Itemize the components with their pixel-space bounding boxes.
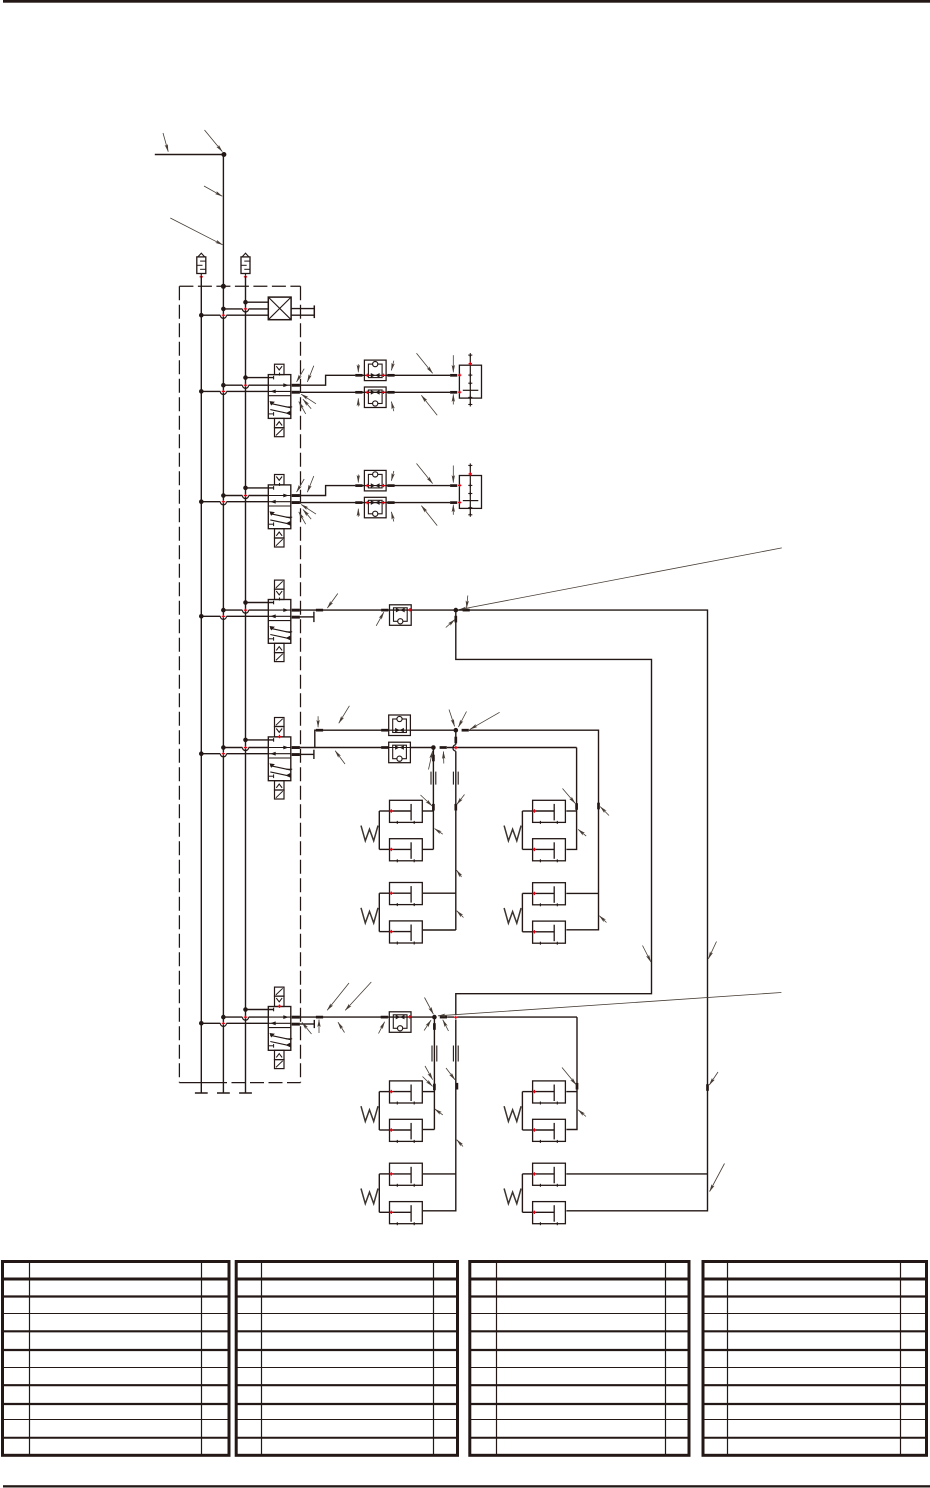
wire W-group rail [521,893,523,931]
callout leader [417,353,433,373]
relief valve (left) [197,253,206,278]
wire rail C [245,276,247,1093]
counterbalance valve W (upper) [390,1163,423,1187]
callout leader [599,916,606,923]
callout leader [391,361,393,371]
callout leader [446,620,455,628]
label W [361,1189,378,1204]
check valve 5 [389,1012,411,1033]
parts table panel 3 [470,1262,689,1456]
callout leader [335,751,345,764]
control valve section 2 [268,475,300,548]
wire [423,1129,434,1131]
wire P feed [246,602,274,604]
callout leader [170,218,222,245]
callout leader [345,982,371,1010]
callout leader [357,364,359,372]
node section5 junction [432,1015,437,1020]
control valve section 3 [268,580,300,662]
counterbalance valve W (upper) [533,883,566,907]
callout leader [429,751,433,770]
W group upper-left [361,800,422,862]
wire to filter from rail C [246,301,269,303]
wire to filter from rail A [201,314,268,316]
callout leader [205,130,223,152]
callout leader [425,998,434,1015]
callout leader [391,512,393,522]
node A4 junction [454,728,459,733]
callout leader [710,1164,725,1192]
callout leader [562,1068,576,1085]
callout leader [307,366,313,382]
callout leader [578,1110,586,1117]
wire P feed [246,739,274,741]
wire service feed [223,747,268,749]
wire service line 3 [300,609,456,611]
callout leader [457,911,464,918]
wire service line 5 [300,1016,435,1018]
tank port end bar [313,305,315,318]
wire pump rail (vertical) [222,155,224,1094]
callout leader [457,870,462,877]
W group lower-left [361,883,422,945]
wire service A4 with step [300,730,389,747]
counterbalance valve W (lower) [390,839,423,863]
wire [423,892,456,894]
wire to far rail (right) [456,610,708,1211]
wire A4 to right W pair [469,730,599,930]
tank symbol [239,1092,252,1094]
callout leader [563,789,576,804]
callout leader [204,186,222,196]
callout leader [452,394,454,404]
pilot check valve (upper) [364,360,386,381]
counterbalance valve W (lower) [533,839,566,863]
wire [566,1173,707,1175]
cylinder 2 [458,463,482,516]
wire T feed [201,390,268,392]
control valve section 5 [268,987,300,1069]
wire W-group rail [378,1174,380,1212]
W group bottom upper-right [504,1081,565,1143]
tank symbol [195,1092,208,1094]
callout leader [435,829,443,835]
control valve section 1 [268,364,300,437]
callout leader [443,1020,449,1031]
callout leader [391,471,393,481]
wire service feed [223,1016,268,1018]
parts table panel 2 [236,1262,457,1456]
parts table panel 4 [703,1262,927,1456]
callout leader [318,1020,320,1033]
wire W-group rail [378,893,380,931]
counterbalance valve W (lower) [533,1119,566,1143]
callout leader [435,1109,443,1115]
wire A4 branch down (hop over B4) [455,730,457,744]
wire [566,810,576,812]
callout leader [600,807,609,816]
callout leader [470,712,499,729]
wire [566,892,598,894]
counterbalance valve W (upper) [390,883,423,907]
callout leader [303,510,311,520]
W group lower-right [504,883,565,945]
callout leader [297,479,305,492]
wire service A with step [300,375,356,385]
node section3 junction [454,608,459,613]
callout leader [299,402,306,414]
callout leader [357,509,359,517]
callout leader [379,1022,385,1034]
wire B4 to right W pair [566,748,576,850]
wire T feed [201,753,268,755]
callout leader [391,402,393,412]
wire [423,1173,456,1175]
valve manifold enclosure (dashed) [179,285,300,287]
plugged port S4 [300,753,314,755]
callout leader [327,983,349,1010]
wire B4 [315,747,389,749]
wire rail A [200,276,202,1093]
wire to lower-right W pair [566,1017,577,1129]
callout leader [458,712,466,728]
wire W-group rail [521,811,523,849]
counterbalance valve W (upper) [533,1081,566,1105]
wire service feed [223,495,268,497]
counterbalance valve W (lower) [390,921,423,945]
counterbalance valve W (lower) [533,1202,566,1226]
wire [422,848,433,850]
wire P feed [246,377,274,379]
callout leader [421,795,433,806]
wire P feed [246,487,274,489]
callout leader [357,398,359,406]
label W [361,908,378,923]
wire to filter from pump rail [223,308,268,310]
callout leader [297,369,305,382]
counterbalance valve W (upper) [390,800,423,824]
wire [423,929,456,931]
wire W-group rail [521,1092,523,1130]
label W [504,1106,521,1121]
wire B4 branch down [432,748,434,850]
wire A4 [410,729,455,731]
callout leader [327,594,337,609]
counterbalance valve W (lower) [390,1202,423,1226]
plugged port [300,616,314,618]
callout leader [421,395,437,415]
callout leader [302,1022,312,1034]
check valve 4A [389,715,411,736]
wire P feed [246,1009,274,1011]
wire T feed [201,615,268,617]
check valve 4B [389,742,411,763]
counterbalance valve W (upper) [533,1163,566,1187]
callout leader [357,475,359,483]
label W [361,826,378,841]
callout leader [457,1140,463,1147]
callout leader [301,394,316,404]
tank symbol [217,1092,230,1094]
callout leader (long) [459,548,782,610]
callout leader [709,1072,718,1085]
label W [504,826,521,841]
callout leader [467,596,468,609]
relief valve (right) [241,253,250,278]
wire W-group rail [521,1174,523,1212]
node supply junction [221,152,226,157]
pilot check valve (lower) [364,497,386,518]
callout leader (long) [438,993,781,1016]
callout leader [452,466,454,483]
plugged port S5 [300,1023,314,1025]
wire [566,1091,577,1093]
wire T feed [201,1022,268,1024]
callout leader [457,795,465,805]
callout leader [307,476,313,492]
wire service feed [223,609,268,611]
cylinder 1 [458,353,482,406]
label W [361,1106,378,1121]
wire A to cylinder [386,485,450,487]
wire service B [300,502,450,504]
counterbalance valve W (lower) [390,1119,423,1143]
wire W-group rail [378,1092,380,1130]
W group bottom lower-right [504,1163,565,1225]
callout leader [299,512,306,524]
hose [431,1046,433,1062]
wire branch down from node 5 [433,1017,435,1129]
W group bottom upper-left [361,1081,422,1143]
hose [452,1046,454,1062]
wire service feed [223,384,268,386]
pilot check valve (upper) [364,470,386,491]
hose [430,772,432,785]
label W [504,1189,521,1204]
callout leader [643,946,651,963]
node B4 junction [431,745,436,750]
check valve 3 [390,605,412,626]
node pump rail enters manifold [221,284,226,289]
wire [423,1091,434,1093]
wire pump supply inlet [155,154,224,156]
callout leader [578,829,586,836]
callout leader [301,505,316,515]
callout leader [417,464,433,484]
wire to inner rail [423,610,652,1211]
W group upper-right [504,800,565,862]
page bottom rule [3,1485,930,1487]
callout leader [423,1077,433,1087]
wire A to cylinder [386,374,450,376]
pilot check valve (lower) [364,387,386,408]
wire service A with step [300,486,356,496]
callout leader [163,133,168,152]
callout leader [425,1066,433,1080]
callout leader [449,710,455,727]
wire [422,810,433,812]
counterbalance valve W (upper) [390,1081,423,1105]
counterbalance valve W (lower) [533,921,566,945]
page top rule bar [3,0,930,3]
parts table panel 1 [3,1262,230,1456]
control valve section 4 [268,718,300,800]
callout leader [708,942,716,959]
callout leader [452,355,454,372]
crossing (no connection) [454,746,457,749]
wire tank return (double line) [291,308,314,310]
callout leader [338,1022,345,1032]
W group bottom lower-left [361,1163,422,1225]
wire T feed [201,501,268,503]
counterbalance valve W (upper) [533,800,566,824]
hose [452,772,454,785]
callout leader [424,1020,431,1030]
callout leader [339,706,350,723]
callout leader [421,506,437,526]
callout leader [376,612,384,626]
callout leader [442,752,444,764]
callout leader [303,399,311,409]
callout leader [317,716,319,727]
label W [504,908,521,923]
filter / plug block [268,297,291,320]
callout leader [452,505,454,515]
callout leader [446,1068,455,1080]
wire service B [300,391,450,393]
wire W-group rail [378,811,380,849]
